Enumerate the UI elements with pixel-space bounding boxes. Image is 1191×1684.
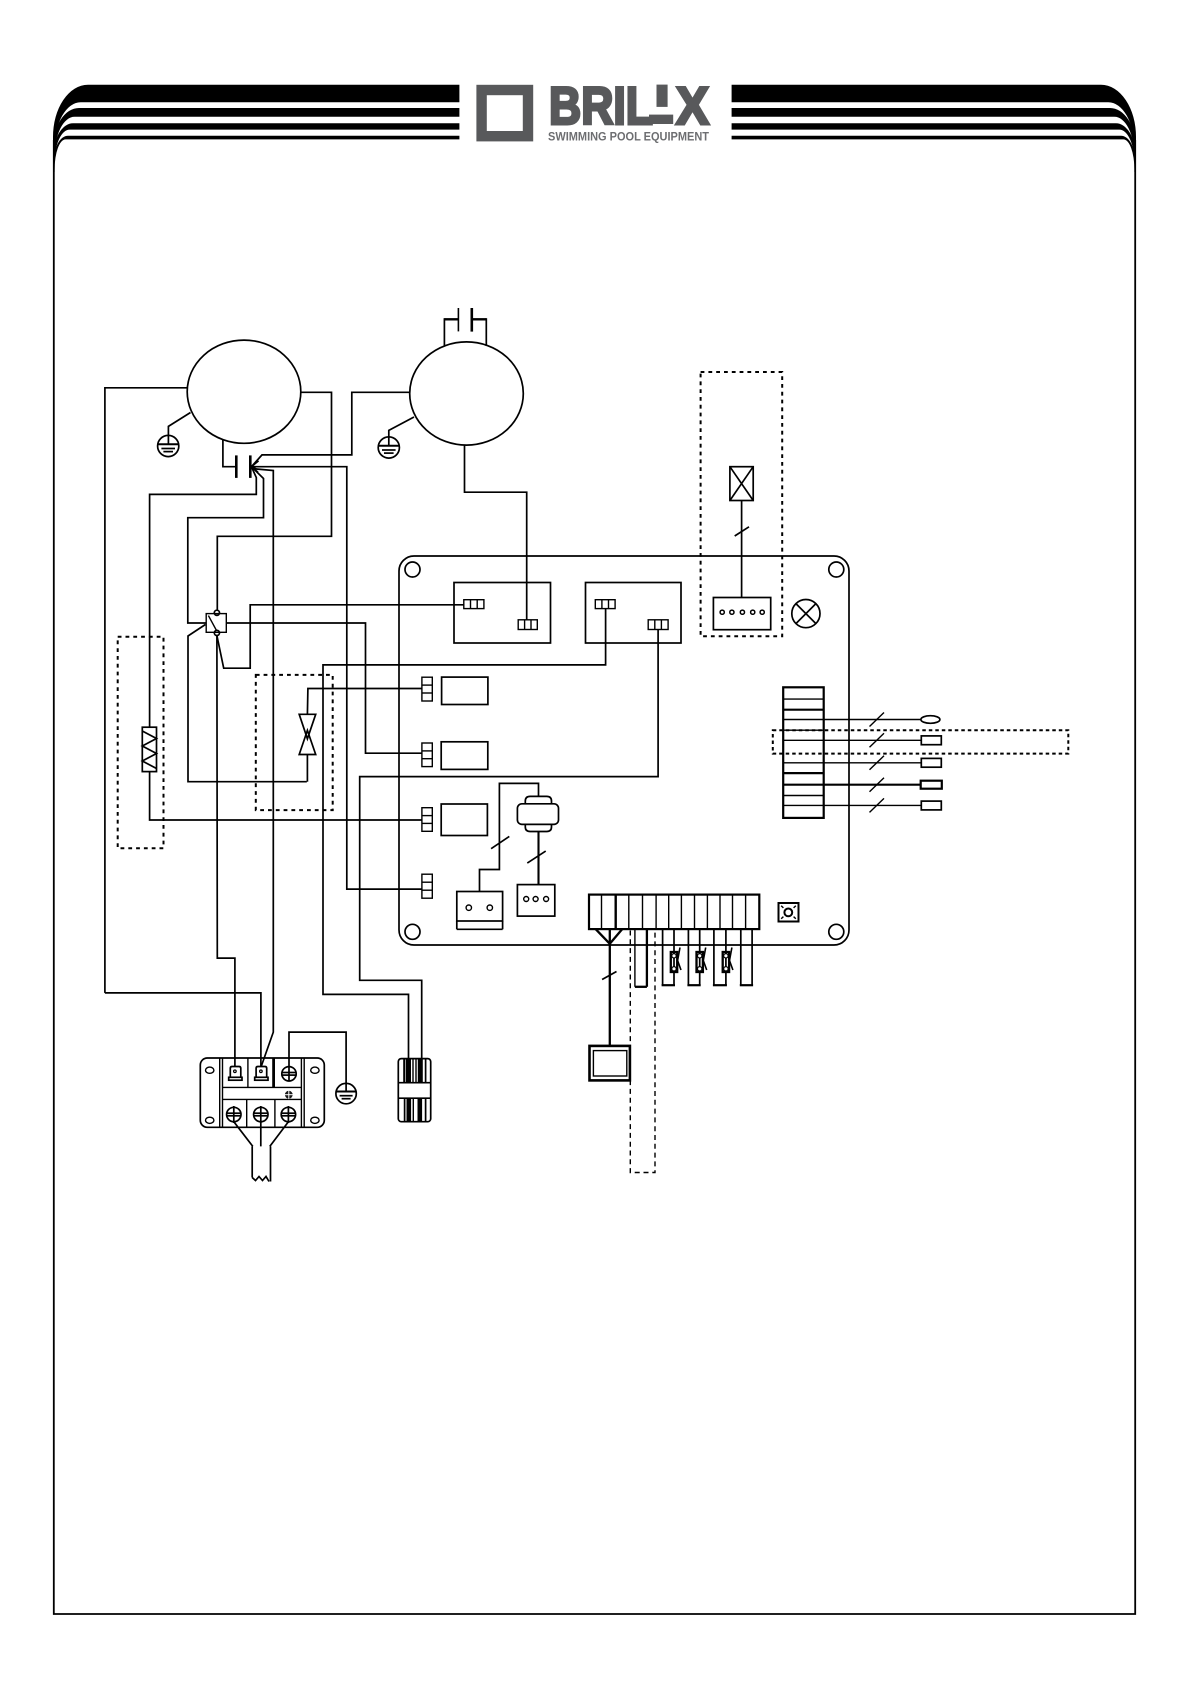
- terminal strip X2: [589, 895, 759, 930]
- slash sensor wire 2: [870, 733, 885, 747]
- connector CN4 (2-pin): [422, 874, 432, 898]
- slash on display riser: [602, 972, 616, 980]
- fuse F2: [697, 948, 707, 973]
- supply cable wires: [234, 1122, 289, 1147]
- BRILIX logo text: [549, 77, 709, 136]
- fan capacitor C1 left plate: [457, 308, 459, 331]
- sensor dotted enclosure: [773, 730, 1069, 753]
- sensor plug 4: [921, 781, 942, 789]
- wire valve top to connector CN1: [307, 689, 421, 715]
- wire strip Y-junction to display: [596, 929, 623, 1046]
- expansion valve V1: [299, 714, 316, 754]
- indicator lamp H1: [792, 600, 820, 628]
- header stripe 4 right: [732, 136, 1136, 172]
- wire connector CND to cable connector right pin: [360, 630, 658, 1059]
- wire 2-pin box to coil top: [480, 783, 539, 891]
- wire overload to pressure switch left: [188, 467, 264, 623]
- slash on 2-pin box riser: [491, 836, 509, 848]
- terminal block X1: [200, 1058, 324, 1127]
- ground symbol PE1 (compressor): [158, 413, 191, 457]
- sensor plug 2: [921, 736, 941, 745]
- slash sensor wire 3: [870, 756, 885, 770]
- terminal bell 2: [255, 1067, 268, 1081]
- screw terminal bottom 2: [253, 1106, 268, 1123]
- small PE screw in band: [284, 1090, 293, 1099]
- heater resistor R1: [142, 727, 156, 771]
- wire heater to connector CN3: [150, 772, 422, 820]
- compressor motor M1: [187, 340, 301, 443]
- 2-pin box (pump terminal): [457, 892, 503, 930]
- fan capacitor C1 right plate: [470, 308, 473, 332]
- expansion valve dashed enclosure: [256, 675, 333, 810]
- header stripe 1 left: [53, 85, 459, 152]
- relay rect RL1: [442, 677, 488, 704]
- buzzer box (bottom right of PCB): [779, 903, 799, 922]
- hanging wire E: [741, 929, 752, 985]
- four-way valve coil Y1: [517, 796, 558, 831]
- wire junction bottom-left to terminal bell 2: [105, 993, 261, 1067]
- PCB mounting hole bottom-left: [405, 924, 420, 939]
- hanging wire B: [663, 929, 674, 985]
- wire switch right to connector CN2: [226, 623, 421, 753]
- screw terminal L3 (top right): [281, 1066, 296, 1082]
- wire capacitor right lead: [472, 318, 487, 320]
- pressure switch S1: [206, 610, 226, 635]
- slash on transformer wire: [735, 527, 749, 536]
- wire switch body to expansion valve return: [188, 625, 307, 782]
- svg-text:X: X: [676, 77, 709, 136]
- 5-pin connector CN5: [713, 598, 770, 630]
- hanging wire D: [714, 929, 726, 985]
- sensor bulb 1 (oval): [921, 716, 940, 724]
- wire switch bottom to connector CNA: [217, 605, 464, 668]
- wire overload to connector CN4 (long): [251, 467, 421, 889]
- sensor wire 3: [824, 762, 922, 764]
- slash sensor wire 5: [870, 798, 885, 812]
- wire capacitor left lead: [444, 318, 458, 320]
- header stripe 2 left: [53, 108, 459, 157]
- connector CN2 (2-pin): [422, 743, 432, 767]
- sensor plug 3: [921, 758, 941, 767]
- hanging wire C: [688, 929, 699, 985]
- slash sensor wire 4: [870, 778, 885, 792]
- sensor wire 2: [824, 739, 922, 741]
- arrowhead at overload node: [251, 461, 258, 473]
- terminal bell 1: [229, 1067, 242, 1081]
- header stripe 3 left: [53, 123, 459, 164]
- sensor wire 1: [824, 719, 921, 721]
- ground symbol PE2 (fan): [378, 417, 414, 458]
- cable connector (hatched): [398, 1059, 430, 1122]
- wire overload down to terminal bell 2: [251, 467, 273, 1067]
- heater dashed enclosure: [118, 637, 164, 848]
- slash on coil bottom wire: [527, 851, 545, 863]
- wire connector CNC to cable connector left pin: [323, 609, 606, 1059]
- wire compressor bottom to overload: [223, 440, 235, 467]
- sensor terminal ladder X3: [783, 687, 824, 818]
- wire transformer to 5-pin connector: [741, 501, 743, 598]
- fuse F1: [671, 948, 681, 973]
- overload protector bar left: [235, 455, 238, 478]
- wire coil bottom to 3-pin box: [537, 832, 539, 885]
- slash sensor wire 1: [870, 713, 885, 727]
- svg-text:BRIL: BRIL: [549, 77, 653, 136]
- PCB mounting hole bottom-right: [829, 924, 844, 939]
- header stripe 1 right: [732, 85, 1136, 152]
- transformer T1 (crossed box): [730, 467, 753, 501]
- relay rect RL2: [441, 742, 488, 770]
- wire earth screw to PE ground: [289, 1032, 346, 1091]
- fuse F3: [723, 948, 733, 973]
- connector CNA on K1: [464, 600, 484, 609]
- connector CN1 (2-pin): [422, 677, 432, 701]
- page border frame: [54, 140, 1135, 1614]
- supply cable: [252, 1146, 270, 1181]
- sensor wire 4 (thick): [824, 784, 921, 786]
- sensor wire 5: [824, 804, 922, 806]
- connector CNC on K2: [595, 600, 615, 609]
- connector CNB on K1: [518, 620, 537, 630]
- header stripe 2 right: [732, 108, 1136, 157]
- ground symbol PE3 (supply): [336, 1083, 356, 1103]
- dashed loop below strip: [630, 931, 655, 1173]
- wire compressor right to switch top: [217, 392, 331, 610]
- display module: [590, 1046, 630, 1081]
- header stripe 4 left: [53, 136, 459, 172]
- relay rect RL3: [441, 804, 487, 836]
- svg-text:SWIMMING POOL EQUIPMENT: SWIMMING POOL EQUIPMENT: [548, 131, 709, 144]
- fan motor bottom wire to relay K1: [465, 445, 527, 620]
- header stripe 3 right: [732, 123, 1136, 164]
- PCB mounting hole top-right: [829, 562, 844, 577]
- screw terminal bottom 3: [281, 1106, 296, 1123]
- connector CN3 (2-pin): [422, 808, 432, 832]
- wire overload to heater resistor: [150, 467, 257, 727]
- wire compressor left to L-down: [105, 388, 187, 993]
- 3-pin box (valve terminal): [517, 885, 554, 917]
- BRILIX logo square: [482, 90, 528, 136]
- transformer dashed enclosure: [701, 372, 783, 636]
- sensor plug 5: [921, 801, 941, 810]
- wire valve bottom: [306, 755, 308, 782]
- wire overload to fan motor: [251, 392, 410, 466]
- PCB mounting hole top-left: [405, 562, 420, 577]
- hanging wire A: [635, 929, 647, 987]
- relay box K2: [586, 583, 682, 644]
- wire switch bottom down to terminal bell 1: [217, 636, 235, 1067]
- screw terminal bottom 1: [226, 1106, 241, 1123]
- fan motor M2: [410, 342, 524, 445]
- PCB board outline: [399, 556, 849, 945]
- connector CND on K2: [648, 620, 668, 630]
- overload protector bar right: [249, 455, 252, 478]
- relay box K1: [454, 583, 551, 644]
